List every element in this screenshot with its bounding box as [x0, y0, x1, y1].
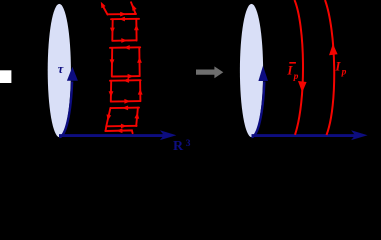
svg-text:3: 3 — [186, 139, 191, 149]
disc D2 (right ellipse) — [240, 4, 263, 137]
plaquette 4 right edge — [136, 108, 138, 126]
plaquette 3 bottom edge (wire ->) — [111, 100, 140, 103]
plaquette 3 right edge — [139, 80, 141, 101]
plaquette 1 top edge (wire <-) — [111, 18, 139, 20]
bottom cut plaquette top edge (wire <-) — [105, 130, 132, 133]
axis arrow R^3 (left) — [59, 134, 164, 137]
arrowhead p3 top edge <- — [123, 78, 129, 83]
arrowhead p2 left edge v — [110, 59, 115, 65]
plaquette 3 top edge (wire <-) — [110, 79, 141, 82]
top cut plaquette: left diagonal edge — [102, 5, 108, 15]
axis arrowhead (right) — [351, 130, 368, 140]
svg-text:p: p — [293, 72, 299, 82]
arrowhead p1 top edge <- — [119, 17, 125, 22]
arrowhead p4 bottom edge -> — [121, 124, 127, 129]
label Ibar_p — [286, 62, 298, 82]
arrowhead p2 right edge ^ — [137, 57, 142, 63]
plaquette 1 left edge — [111, 19, 113, 40]
tau arrow (left disc normal/axis) — [59, 82, 72, 138]
arrowhead cut bottom edge -> — [120, 12, 126, 17]
plaquette 1 bottom edge (wire ->) — [112, 39, 136, 42]
plaquette 2 left edge — [111, 48, 113, 77]
arrowhead p3 right edge ^ — [138, 89, 143, 95]
svg-text:p: p — [341, 68, 347, 78]
top cut plaquette: right diagonal edge — [131, 2, 136, 13]
arrowhead top-right diagonal — [132, 4, 136, 11]
arrowhead p1 right edge ^ — [134, 24, 139, 30]
arrowhead top-left diagonal — [101, 2, 106, 8]
plaquette 2 right edge — [138, 48, 140, 77]
plaquette 2 top edge (wire <-) — [110, 46, 140, 49]
svg-text:I: I — [286, 63, 293, 78]
plaquette 4 top edge (wire <-) — [110, 107, 139, 110]
red plaquette ladder — [102, 2, 141, 133]
svg-text:I: I — [334, 58, 341, 73]
plaquette 3 left edge — [110, 81, 112, 102]
plaquette 1 right edge — [135, 19, 137, 41]
arrowhead p3 bottom edge -> — [124, 99, 130, 104]
axis arrowhead (left) — [160, 130, 177, 140]
arrowhead p3 left edge v — [109, 91, 114, 97]
plaquette 2 bottom edge (wire ->) — [112, 75, 140, 77]
arrowhead p4 left edge v — [107, 114, 112, 120]
top cut plaquette bottom edge (wire ->) — [108, 13, 137, 15]
disc D1 (left ellipse) — [48, 4, 71, 137]
arrowhead Ibar_p (down) — [298, 81, 307, 93]
svg-text:τ: τ — [58, 62, 64, 76]
white equation fragment at left edge — [0, 70, 11, 83]
arrowhead p2 top edge <- — [124, 45, 130, 50]
implication arrow (gray) — [196, 66, 223, 78]
loop Ibar_p (red curve with downward arrow) — [295, 0, 304, 135]
arrowhead p1 bottom edge -> — [121, 38, 127, 43]
plaquette 4 bottom edge (wire ->) — [106, 125, 136, 128]
label I_p — [334, 58, 346, 77]
arrowhead I_p (up) — [329, 44, 338, 56]
plaquette 4 left edge — [106, 108, 111, 131]
axis arrow (right) — [252, 134, 357, 137]
arrowhead p4 right edge ^ — [134, 113, 139, 119]
arrowhead p4 top edge <- — [122, 106, 128, 111]
arrowhead bottom cut edge <- — [116, 128, 122, 133]
loop I_p (red curve with upward arrow) — [325, 0, 334, 135]
arrowhead p1 left edge v — [110, 28, 115, 34]
svg-text:R: R — [173, 139, 184, 151]
boundary orientation arrow (right disc) — [252, 82, 265, 138]
arrowhead p2 bottom edge -> — [128, 74, 134, 79]
